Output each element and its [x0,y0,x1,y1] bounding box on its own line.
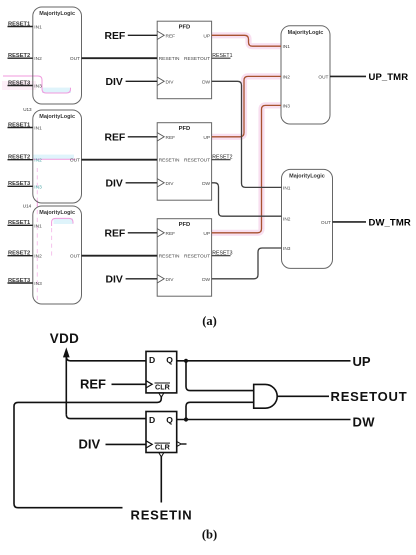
svg-text:IN2: IN2 [34,254,42,260]
svg-text:OUT: OUT [318,74,328,80]
svg-text:DIV: DIV [106,178,123,189]
svg-text:REF: REF [166,231,176,237]
svg-text:RESET1: RESET1 [212,53,232,59]
svg-text:RESET2: RESET2 [8,251,30,257]
svg-text:RESET1: RESET1 [8,21,30,27]
svg-text:IN3: IN3 [34,84,42,90]
svg-text:OUT: OUT [70,56,80,62]
svg-text:Q: Q [166,355,173,365]
svg-text:MajorityLogic: MajorityLogic [39,11,75,17]
svg-text:OUT: OUT [321,220,331,226]
svg-text:REF: REF [105,132,126,143]
svg-text:REF: REF [166,135,176,141]
svg-text:DW_TMR: DW_TMR [369,218,411,229]
svg-text:RESETIN: RESETIN [159,56,180,62]
svg-text:DIV: DIV [166,181,175,187]
svg-text:RESETOUT: RESETOUT [184,158,210,164]
svg-text:IN1: IN1 [283,185,291,191]
svg-text:CLR: CLR [155,443,171,452]
svg-text:PFD: PFD [179,126,191,132]
svg-text:PFD: PFD [179,24,191,30]
svg-text:RESET3: RESET3 [8,181,30,187]
svg-text:IN2: IN2 [283,217,291,223]
svg-text:RESETIN: RESETIN [159,254,180,260]
svg-text:OUT: OUT [70,158,80,164]
svg-text:CLR: CLR [155,382,171,391]
svg-text:(a): (a) [202,314,217,328]
svg-text:DIV: DIV [79,437,101,452]
svg-text:RESETIN: RESETIN [131,508,193,523]
svg-text:REF: REF [166,33,176,39]
svg-text:IN3: IN3 [283,103,291,109]
svg-text:RESET1: RESET1 [8,220,30,226]
svg-text:IN2: IN2 [34,56,42,62]
svg-text:IN1: IN1 [34,223,42,229]
svg-text:UP: UP [203,231,210,237]
svg-text:RESET2: RESET2 [8,53,30,59]
svg-text:U13: U13 [23,107,32,112]
svg-text:DIV: DIV [166,277,175,283]
svg-text:RESET2: RESET2 [8,155,30,161]
svg-text:PFD: PFD [179,222,191,228]
svg-text:MajorityLogic: MajorityLogic [288,30,324,36]
svg-text:(b): (b) [202,528,217,542]
svg-text:UP: UP [203,33,210,39]
svg-text:RESET3: RESET3 [8,80,30,86]
svg-text:Q: Q [166,415,173,425]
svg-text:IN1: IN1 [283,44,291,50]
svg-text:DW: DW [202,181,210,187]
svg-text:REF: REF [80,377,106,392]
svg-text:DW: DW [202,277,210,283]
svg-text:REF: REF [105,31,126,42]
svg-text:DIV: DIV [166,79,175,85]
svg-text:DW: DW [353,414,376,429]
svg-text:IN1: IN1 [34,126,42,132]
svg-text:RESET1: RESET1 [8,122,30,128]
svg-text:IN3: IN3 [34,184,42,190]
svg-text:RESET3: RESET3 [8,278,30,284]
svg-text:DIV: DIV [106,274,123,285]
svg-text:DW: DW [202,79,210,85]
svg-text:IN3: IN3 [34,281,42,287]
svg-text:OUT: OUT [70,254,80,260]
svg-text:UP: UP [353,354,371,369]
svg-text:UP_TMR: UP_TMR [369,72,409,83]
svg-text:IN3: IN3 [283,246,291,252]
svg-text:RESETOUT: RESETOUT [184,56,210,62]
svg-text:D: D [149,355,155,365]
svg-text:RESET2: RESET2 [212,154,232,160]
svg-text:MajorityLogic: MajorityLogic [39,210,75,216]
svg-text:IN2: IN2 [283,74,291,80]
svg-text:MajorityLogic: MajorityLogic [39,114,75,120]
svg-text:REF: REF [105,228,126,239]
svg-text:RESETOUT: RESETOUT [331,389,408,404]
svg-text:IN1: IN1 [34,25,42,31]
svg-text:UP: UP [203,135,210,141]
svg-text:MajorityLogic: MajorityLogic [289,173,325,179]
svg-text:RESETIN: RESETIN [159,158,180,164]
svg-text:IN2: IN2 [34,158,42,164]
svg-text:RESETOUT: RESETOUT [184,254,210,260]
svg-text:VDD: VDD [50,331,79,346]
svg-text:DIV: DIV [106,77,123,88]
svg-text:RESET3: RESET3 [212,250,232,256]
svg-text:U14: U14 [23,203,32,208]
svg-text:D: D [149,415,155,425]
